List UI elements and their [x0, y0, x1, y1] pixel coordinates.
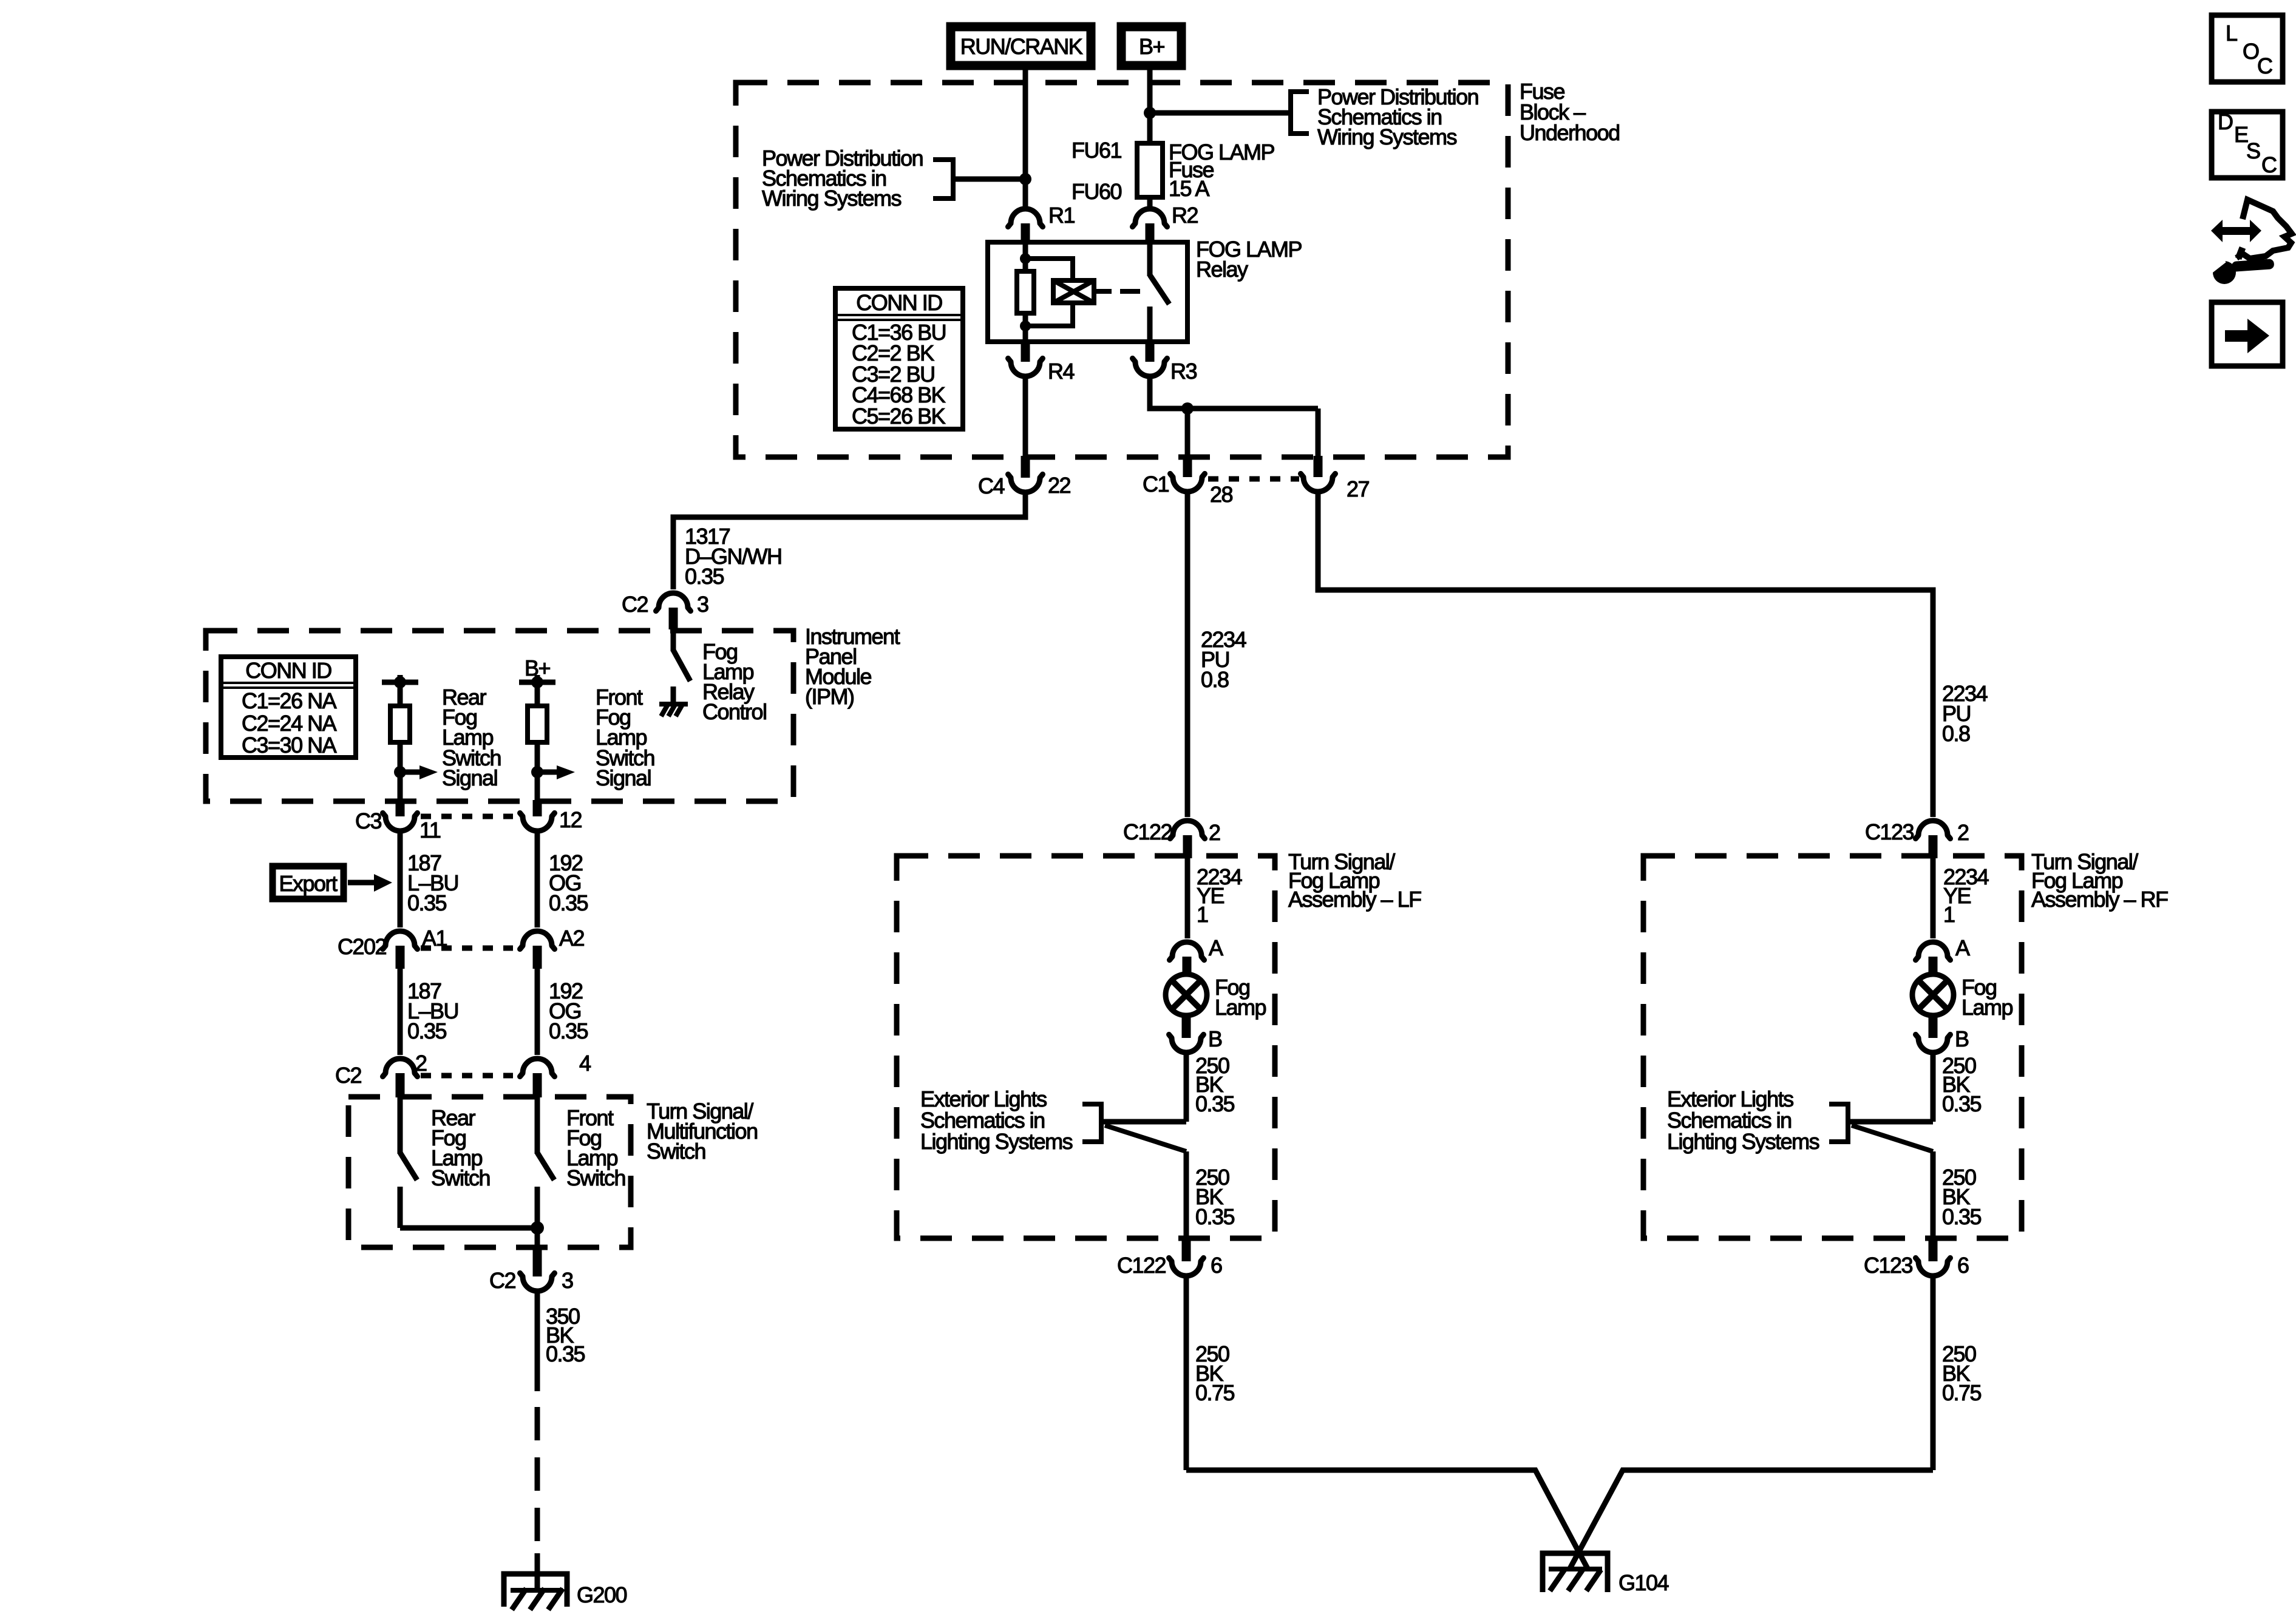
connector C202 pin A1	[383, 931, 418, 949]
wire B+ feed down to fuse	[1147, 65, 1153, 143]
svg-text:15 A: 15 A	[1169, 176, 1210, 201]
svg-text:0.35: 0.35	[407, 1019, 447, 1043]
relay switch contact lower	[1147, 307, 1153, 342]
wire C123-2 into RF assembly	[1931, 858, 1936, 938]
svg-text:2: 2	[1957, 820, 1969, 845]
wire front rail upper stub	[535, 675, 540, 682]
svg-text:C123: C123	[1865, 819, 1914, 844]
svg-text:28: 28	[1210, 482, 1233, 507]
svg-text:0.75: 0.75	[1942, 1380, 1982, 1405]
svg-text:CONN ID: CONN ID	[245, 658, 331, 683]
svg-text:Signal: Signal	[596, 765, 651, 790]
svg-text:Wiring Systems: Wiring Systems	[762, 186, 902, 211]
svg-text:C123: C123	[1864, 1253, 1913, 1278]
fog lamp relay control switch wire	[671, 629, 676, 651]
wire 11 to A1	[398, 833, 403, 927]
connector C202 pin A2	[520, 931, 555, 949]
svg-text:6: 6	[1957, 1253, 1969, 1278]
connector C3 pin 12	[533, 800, 542, 816]
wire rear rail upper stub	[398, 675, 403, 682]
svg-text:G104: G104	[1618, 1570, 1669, 1595]
svg-text:Lamp: Lamp	[1215, 995, 1266, 1020]
node front signal junction	[531, 766, 543, 778]
node junction on B+ wire	[1144, 107, 1156, 119]
wire C123-6 to ground run (RF)	[1931, 1278, 1936, 1470]
svg-text:C4: C4	[978, 473, 1004, 498]
resistor (relay coil suppression)	[1017, 271, 1034, 313]
front signal arrow	[537, 770, 557, 775]
dashed connector tie 2 to 4	[421, 1073, 513, 1079]
wire relay coil branch	[1023, 242, 1028, 271]
svg-text:3: 3	[697, 592, 708, 617]
wire bracket to B wire (LF)	[1101, 1119, 1186, 1125]
connector C4 pin 22	[1021, 456, 1030, 478]
wire junction to power distribution bracket (left)	[954, 177, 1025, 182]
svg-text:2: 2	[1209, 820, 1220, 845]
svg-text:2: 2	[415, 1051, 427, 1076]
rear signal arrow	[400, 770, 419, 775]
connector pin B (RF)	[1929, 1015, 1938, 1038]
power feed RUN/CRANK	[951, 27, 1091, 66]
svg-text:C: C	[2257, 53, 2272, 78]
wire junction down to pin 28	[1185, 408, 1190, 457]
turn signal fog lamp assembly LF box	[897, 856, 1275, 1238]
svg-text:0.8: 0.8	[1201, 667, 1229, 692]
connector pin R2	[1133, 209, 1167, 227]
svg-text:C1=26 NA: C1=26 NA	[242, 688, 337, 713]
connector C3 pin 11	[396, 800, 405, 816]
wire to pin 27	[1316, 408, 1321, 457]
wire coil to relay box bottom	[1023, 313, 1028, 342]
node rear signal junction	[394, 766, 406, 778]
power feed B+	[1121, 27, 1181, 66]
relay actuation dashed link	[1094, 289, 1112, 294]
CONN ID table (IPM)	[221, 657, 356, 758]
fuse block underhood box	[736, 83, 1508, 457]
svg-text:C1: C1	[1143, 472, 1169, 497]
svg-text:C122: C122	[1117, 1253, 1166, 1278]
svg-text:FU60: FU60	[1072, 179, 1122, 204]
svg-text:C3: C3	[355, 808, 381, 833]
wire RUN/CRANK feed down to relay coil	[1023, 65, 1028, 207]
svg-text:CONN ID: CONN ID	[856, 290, 942, 315]
connector pin R4	[1021, 342, 1030, 362]
rear fog lamp switch lower contact	[398, 1187, 403, 1228]
svg-text:B: B	[1208, 1026, 1222, 1051]
wire rear resistor down	[398, 742, 403, 801]
node front rail terminal	[531, 676, 543, 688]
connector C1 pin 27	[1314, 456, 1323, 477]
svg-text:0.8: 0.8	[1942, 721, 1970, 746]
dashed connector tie 11 to 12	[421, 814, 513, 819]
node rear rail terminal	[394, 676, 406, 688]
connector pin B (LF)	[1182, 1015, 1191, 1038]
wire R4 to C4	[1023, 379, 1028, 457]
connector C2 pin 3 (switch)	[533, 1248, 542, 1276]
front fog lamp switch lower contact	[535, 1187, 540, 1228]
connector pin A (LF)	[1170, 942, 1204, 960]
connector C2 pin 3 (IPM)	[656, 593, 691, 611]
svg-text:0.35: 0.35	[1942, 1091, 1982, 1116]
svg-text:Switch: Switch	[566, 1165, 625, 1190]
svg-text:0.35: 0.35	[407, 890, 447, 915]
svg-text:G200: G200	[577, 1582, 627, 1607]
dashed connector tie A1 to A2	[421, 946, 513, 951]
svg-text:4: 4	[579, 1051, 591, 1076]
resistor (front pull-up)	[528, 706, 547, 742]
svg-text:0.35: 0.35	[685, 564, 724, 589]
svg-text:Switch: Switch	[647, 1139, 705, 1164]
connector pin R1	[1008, 209, 1043, 227]
svg-text:R3: R3	[1170, 359, 1197, 384]
svg-text:B: B	[1955, 1026, 1969, 1051]
svg-text:FU61: FU61	[1072, 138, 1122, 163]
relay switch blade	[1150, 275, 1169, 304]
wire C122-6 to ground run (LF)	[1184, 1278, 1189, 1470]
svg-text:R2: R2	[1172, 203, 1198, 228]
svg-text:0.75: 0.75	[1195, 1380, 1235, 1405]
wire LF ground run to G104	[1186, 1470, 1588, 1568]
switch common bus wire	[400, 1228, 537, 1248]
bracket exterior lights reference (LF)	[1082, 1104, 1101, 1142]
fog lamp relay control ground stub	[671, 686, 676, 704]
svg-text:Lamp: Lamp	[1961, 995, 2013, 1020]
connector C123 pin 2	[1916, 821, 1951, 839]
wire C122-2 into LF assembly	[1185, 858, 1190, 938]
svg-text:27: 27	[1347, 476, 1370, 501]
relay switch contact upper	[1147, 242, 1153, 276]
ground G104	[1543, 1553, 1608, 1592]
bracket for power distribution reference (right)	[1291, 92, 1309, 134]
svg-text:3: 3	[562, 1268, 573, 1293]
svg-text:A2: A2	[559, 926, 585, 951]
svg-text:Switch: Switch	[431, 1165, 490, 1190]
relay coil (solenoid X box)	[1053, 280, 1094, 303]
wire B to splice (RF)	[1931, 1055, 1936, 1122]
svg-text:A: A	[1955, 935, 1970, 960]
svg-text:Signal: Signal	[442, 765, 497, 790]
wire R3 jog to 28/27	[1150, 379, 1318, 408]
svg-text:0.35: 0.35	[1195, 1204, 1235, 1229]
wire splice diagonal (RF)	[1852, 1125, 1933, 1151]
svg-text:C122: C122	[1123, 819, 1172, 844]
rear fog lamp switch blade	[400, 1153, 417, 1180]
svg-text:C202: C202	[338, 934, 387, 959]
wire A2 to C2-4	[535, 969, 540, 1055]
wire A1 to C2-2	[398, 969, 403, 1055]
svg-text:A: A	[1209, 935, 1223, 960]
wire bracket to B wire (RF)	[1848, 1119, 1933, 1125]
svg-text:0.35: 0.35	[546, 1341, 585, 1366]
ground G200	[504, 1574, 567, 1610]
wire 27 to C123-2	[1318, 494, 1933, 817]
wire C4-22 to IPM C2-3	[673, 495, 1025, 589]
connector C2 pin 2	[383, 1059, 418, 1077]
svg-text:C2: C2	[622, 592, 648, 617]
node switch bus junction	[531, 1221, 544, 1235]
connector C122 pin 6	[1182, 1239, 1191, 1261]
front fog lamp switch wire	[535, 1097, 540, 1154]
bracket for power distribution reference (left)	[933, 160, 953, 198]
svg-text:Underhood: Underhood	[1520, 120, 1620, 145]
svg-text:0.35: 0.35	[549, 890, 588, 915]
dashed connector tie C1 28 to 27	[1208, 476, 1299, 482]
wire RF ground run to G104	[1570, 1470, 1933, 1568]
svg-text:C2: C2	[489, 1268, 515, 1293]
wire B to splice (LF)	[1184, 1055, 1189, 1122]
fog lamp bulb RF	[1912, 974, 1954, 1015]
svg-text:Assembly – RF: Assembly – RF	[2031, 887, 2168, 912]
relay K: FOG LAMP Relay box	[988, 242, 1187, 342]
wire junction to power distribution bracket (right)	[1150, 110, 1289, 116]
connector C123 pin 6	[1929, 1239, 1938, 1261]
svg-text:Wiring Systems: Wiring Systems	[1317, 124, 1457, 149]
fog lamp relay control switch blade	[673, 650, 690, 681]
wire splice diagonal (LF)	[1105, 1125, 1186, 1151]
svg-text:0.35: 0.35	[1195, 1091, 1235, 1116]
wire splice to C123-6 (RF)	[1931, 1151, 1936, 1239]
svg-text:C2=24 NA: C2=24 NA	[242, 711, 337, 736]
DESC view icon	[2212, 109, 2283, 178]
connector C1 pin 28	[1183, 456, 1192, 477]
svg-text:C3=30 NA: C3=30 NA	[242, 733, 337, 758]
svg-text:L: L	[2226, 21, 2237, 46]
svg-text:C2: C2	[335, 1063, 361, 1088]
turn signal fog lamp assembly RF box	[1643, 856, 2022, 1238]
svg-text:O: O	[2243, 39, 2259, 64]
front fog lamp switch signal rail	[519, 680, 555, 685]
svg-text:Export: Export	[279, 871, 338, 896]
wire rail to rear resistor	[398, 682, 403, 706]
svg-text:11: 11	[419, 818, 441, 842]
svg-text:(IPM): (IPM)	[805, 684, 854, 709]
LOC view icon	[2212, 15, 2283, 82]
wire fuse to R2	[1147, 197, 1153, 207]
wire coil top jog	[1025, 259, 1073, 280]
bracket exterior lights reference (RF)	[1829, 1104, 1848, 1142]
node coil top junction	[1020, 253, 1031, 264]
node coil bottom junction	[1020, 320, 1031, 331]
fog lamp bulb LF	[1166, 974, 1207, 1015]
svg-text:0.35: 0.35	[1942, 1204, 1982, 1229]
svg-text:6: 6	[1211, 1253, 1222, 1278]
rear fog lamp switch signal rail	[382, 680, 418, 685]
svg-text:R4: R4	[1048, 359, 1074, 384]
connector pin R3	[1146, 342, 1155, 362]
wire 12 to A2	[535, 833, 540, 927]
svg-text:0.35: 0.35	[549, 1019, 588, 1043]
svg-text:1: 1	[1943, 902, 1955, 927]
svg-text:12: 12	[559, 807, 582, 832]
wire C2-3 to G200 dashed part	[535, 1407, 540, 1566]
svg-text:Control: Control	[702, 699, 767, 724]
wire G200 entry stub	[535, 1553, 540, 1589]
node junction on RUN/CRANK wire	[1019, 173, 1031, 185]
rear fog lamp switch wire	[398, 1097, 403, 1154]
svg-text:D: D	[2218, 109, 2233, 134]
chassis ground (IPM internal)	[659, 703, 688, 716]
resistor (rear pull-up)	[390, 706, 410, 742]
front fog lamp switch blade	[537, 1153, 554, 1180]
Export arrow	[348, 880, 375, 886]
turn signal multifunction switch box	[348, 1097, 631, 1247]
wire C1-28 to C122-2	[1185, 494, 1190, 817]
diagnostic information icon	[2208, 200, 2292, 284]
connector C122 pin 2	[1170, 821, 1205, 839]
wire splice to C122-6 (LF)	[1184, 1151, 1189, 1239]
svg-text:1: 1	[1197, 902, 1208, 927]
svg-text:R1: R1	[1048, 203, 1075, 228]
wire rail to front resistor	[535, 682, 540, 706]
Export option box	[273, 866, 344, 899]
svg-text:C5=26 BK: C5=26 BK	[852, 404, 946, 429]
node junction above pin 28	[1181, 402, 1194, 415]
CONN ID table (fuse block)	[835, 288, 963, 429]
wire front resistor down	[535, 742, 540, 801]
svg-text:Lighting Systems: Lighting Systems	[920, 1129, 1073, 1154]
svg-text:22: 22	[1048, 473, 1071, 498]
svg-text:Lighting Systems: Lighting Systems	[1667, 1129, 1819, 1154]
fuse FU61 FOG LAMP 15A	[1137, 143, 1163, 197]
svg-text:Assembly – LF: Assembly – LF	[1288, 887, 1421, 912]
forward arrow icon	[2212, 302, 2283, 366]
svg-text:RUN/CRANK: RUN/CRANK	[960, 34, 1083, 59]
svg-text:S: S	[2246, 138, 2260, 163]
connector C2 pin 4	[520, 1059, 555, 1077]
instrument panel module IPM box	[206, 631, 793, 801]
svg-text:C: C	[2261, 152, 2277, 177]
svg-text:Relay: Relay	[1196, 257, 1248, 282]
connector pin A (RF)	[1916, 942, 1951, 960]
wire C2-3 to G200 solid part	[535, 1293, 540, 1391]
wire coil bottom jog	[1025, 303, 1073, 326]
svg-text:B+: B+	[1139, 34, 1165, 59]
